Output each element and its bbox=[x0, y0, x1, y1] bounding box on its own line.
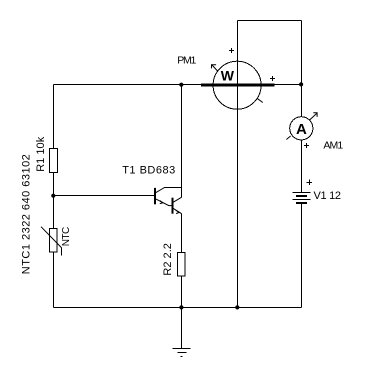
svg-text:V1 12: V1 12 bbox=[314, 190, 342, 202]
svg-text:R1 10k: R1 10k bbox=[35, 136, 47, 172]
svg-text:W: W bbox=[221, 68, 235, 84]
svg-text:T1 BD683: T1 BD683 bbox=[122, 164, 175, 176]
svg-text:NTC1 2322 640 63102: NTC1 2322 640 63102 bbox=[21, 154, 33, 274]
svg-text:A: A bbox=[296, 121, 307, 138]
svg-text:NTC: NTC bbox=[61, 227, 72, 247]
svg-text:AM1: AM1 bbox=[323, 139, 343, 151]
svg-text:R2 2.2: R2 2.2 bbox=[162, 243, 174, 276]
svg-text:PM1: PM1 bbox=[177, 55, 196, 67]
